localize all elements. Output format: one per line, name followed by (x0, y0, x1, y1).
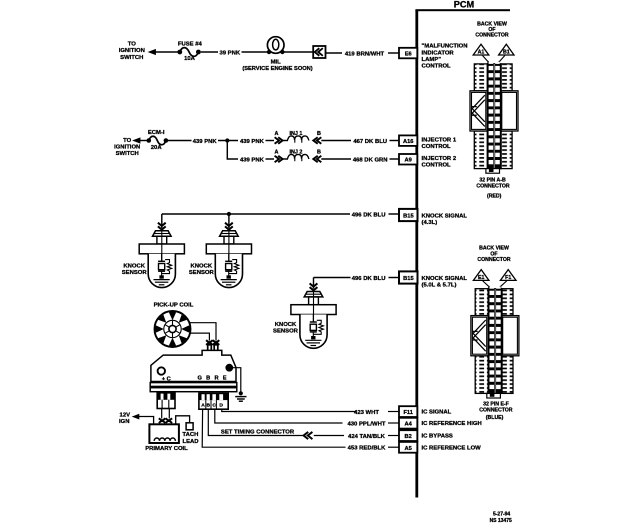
PCM top horizontal line (415, 9, 510, 11)
svg-text:CONTROL: CONTROL (422, 163, 452, 169)
wire (282, 51, 313, 53)
svg-text:SENSOR: SENSOR (122, 270, 148, 276)
connector C1 (A-B) body top hatched section (474, 64, 512, 91)
svg-text:A1: A1 (478, 49, 485, 55)
svg-text:468 DK GRN: 468 DK GRN (353, 157, 388, 163)
connector C1 (A-B) middle wide section (470, 91, 518, 131)
PCM pin A9 (399, 154, 417, 165)
wire (321, 140, 351, 142)
PCM pin B15 (4.3L knock) (399, 209, 418, 221)
svg-text:+ C: + C (162, 376, 171, 382)
svg-text:ECM-I: ECM-I (148, 130, 165, 136)
svg-text:SENSOR: SENSOR (189, 270, 215, 276)
module base plate bar 2 (150, 388, 237, 392)
wire triangle A1 to connector (483, 56, 489, 63)
svg-text:KNOCK: KNOCK (275, 322, 297, 328)
svg-text:SWITCH: SWITCH (120, 55, 143, 61)
connector C2 (E-F) pin square holes (490, 291, 501, 389)
module base plate bar 1 (150, 383, 237, 387)
junction node above knock sensor 2 (227, 212, 231, 216)
knock sensor 3 (291, 278, 336, 349)
wire (218, 140, 238, 142)
svg-text:12V: 12V (120, 412, 131, 418)
wire triangle F1 to connector (500, 281, 507, 287)
svg-text:A16: A16 (403, 139, 413, 145)
wire (266, 158, 275, 160)
svg-text:D: D (219, 402, 223, 408)
ground symbol (module) (239, 391, 243, 395)
wire (389, 277, 400, 279)
arrow to 12V ignition (132, 414, 140, 420)
svg-text:KNOCK: KNOCK (123, 263, 145, 269)
svg-text:MIL: MIL (271, 60, 282, 66)
knock sensor flange (291, 305, 336, 315)
tach lead wire (176, 416, 190, 425)
arrow to ignition switch (132, 137, 140, 143)
svg-text:A4: A4 (405, 422, 413, 428)
svg-text:B1: B1 (503, 49, 510, 55)
connector C1 (A-B) top wire entry marks (489, 62, 494, 64)
wire: knock sensors (4.3L) to B15 (162, 213, 350, 215)
pick-up coil (155, 311, 191, 347)
wire module pin C to PCM A4 (215, 409, 343, 423)
knock sensor stem center wire (161, 231, 163, 262)
knock sensor internal resistor (162, 260, 172, 274)
wire (242, 51, 269, 53)
svg-text:PICK-UP COIL: PICK-UP COIL (154, 303, 194, 309)
primary coil box (149, 424, 179, 443)
knock sensor stem (224, 236, 234, 244)
svg-text:TO: TO (128, 42, 136, 48)
knock sensor cup body (148, 254, 175, 288)
svg-text:20A: 20A (151, 145, 163, 151)
svg-text:B15: B15 (403, 276, 413, 282)
svg-text:B2: B2 (405, 434, 412, 440)
wire (390, 140, 400, 142)
module right pin housing (A B C D) (199, 393, 228, 409)
knock sensor flange (206, 244, 251, 254)
svg-text:NS 13475: NS 13475 (490, 518, 512, 524)
svg-text:CONTROL: CONTROL (422, 64, 452, 70)
connector C2 (E-F) body top hatched section (475, 289, 513, 316)
svg-text:(5.0L & 5.7L): (5.0L & 5.7L) (422, 282, 457, 288)
knock sensor flange (139, 244, 184, 254)
svg-text:5-27-94: 5-27-94 (493, 512, 510, 518)
knock sensor cap (220, 231, 239, 236)
connector pin id triangle E1 (C2) (473, 270, 489, 281)
knock sensor internal ground (311, 336, 315, 339)
knock sensor terminal arrows (310, 283, 318, 290)
wire module pin B to PCM B2 (208, 409, 303, 435)
module mounting hole (158, 367, 165, 374)
knock sensor cap (153, 231, 172, 236)
module ground terminal dot (225, 364, 233, 372)
svg-text:(BLUE): (BLUE) (486, 415, 504, 421)
svg-text:IC REFERENCE LOW: IC REFERENCE LOW (422, 445, 482, 451)
wire (266, 140, 275, 142)
connector pin id triangle A1 (C1) (473, 44, 489, 55)
svg-text:IC SIGNAL: IC SIGNAL (422, 410, 452, 416)
svg-text:FUSE #4: FUSE #4 (178, 41, 203, 47)
svg-text:IC BYPASS: IC BYPASS (422, 434, 453, 440)
svg-text:(RED): (RED) (487, 194, 502, 200)
svg-text:SWITCH: SWITCH (116, 151, 139, 157)
svg-text:A: A (201, 402, 205, 408)
svg-text:439 PNK: 439 PNK (193, 139, 218, 145)
svg-text:B: B (317, 150, 321, 156)
svg-text:430 PPL/WHT: 430 PPL/WHT (348, 421, 386, 427)
module ground wire (233, 368, 241, 392)
svg-text:439 PNK: 439 PNK (240, 139, 265, 145)
knock sensor cup body (300, 315, 327, 349)
PCM pin A16 (399, 135, 417, 146)
wire: knock sensor (5.0L/5.7L) to B15 (314, 277, 351, 279)
svg-text:453 RED/BLK: 453 RED/BLK (348, 446, 386, 452)
connector C1 (A-B) center pin strip (487, 63, 502, 169)
ignition module body (151, 350, 236, 381)
module left pin housing (157, 393, 175, 409)
connector C2 (E-F) top wire entry marks (490, 287, 495, 289)
connector C2 (E-F) bottom tab (487, 393, 501, 398)
wire (321, 158, 351, 160)
svg-text:INDICATOR: INDICATOR (422, 50, 455, 56)
svg-text:KNOCK SIGNAL: KNOCK SIGNAL (422, 276, 468, 282)
wire (388, 422, 399, 424)
wire stubs inside left housing (161, 400, 163, 409)
svg-text:E6: E6 (405, 51, 412, 57)
svg-text:SET TIMING CONNECTOR: SET TIMING CONNECTOR (221, 430, 295, 436)
svg-text:439 PNK: 439 PNK (240, 157, 265, 163)
connector C1 (A-B) left wire-bundle box (472, 92, 486, 129)
knock sensor internal piezo element (161, 254, 163, 261)
svg-text:A9: A9 (405, 158, 412, 164)
wire branch down to injector 2 row (227, 141, 238, 160)
P pin (208, 345, 212, 351)
knock sensor stem (157, 236, 167, 244)
P terminal connector X (206, 340, 213, 345)
tach lead connector square (186, 423, 193, 430)
svg-text:496 DK BLU: 496 DK BLU (352, 276, 386, 282)
svg-text:KNOCK SIGNAL: KNOCK SIGNAL (422, 214, 468, 220)
connector pin id triangle F1 (C2) (500, 270, 516, 281)
svg-text:CONNECTOR: CONNECTOR (477, 257, 511, 263)
svg-text:419 BRN/WHT: 419 BRN/WHT (345, 51, 385, 57)
wire module pin to coil C terminal (168, 408, 170, 419)
wire 12V to coil (139, 417, 154, 425)
PCM pin E6 (399, 48, 417, 59)
wire (201, 51, 218, 53)
PCM pin B2 (399, 430, 417, 441)
svg-text:B15: B15 (403, 214, 413, 220)
set timing connector chevron (304, 432, 313, 439)
svg-text:SENSOR: SENSOR (273, 328, 299, 334)
svg-text:(SERVICE ENGINE SOON): (SERVICE ENGINE SOON) (242, 66, 312, 72)
PCM pin A5 (399, 442, 417, 453)
svg-text:TACH: TACH (182, 432, 198, 438)
svg-text:CONTROL: CONTROL (422, 144, 452, 150)
inline connector (boxed double chevron) (313, 46, 325, 58)
knock sensor internal ground (227, 275, 231, 278)
svg-text:C: C (212, 402, 216, 408)
svg-text:PRIMARY COIL: PRIMARY COIL (145, 446, 188, 452)
connector C2 (E-F) left wire-bundle box (472, 317, 486, 354)
junction node (225, 138, 229, 142)
knock sensor internal piezo element (228, 254, 230, 261)
wire (388, 446, 399, 448)
svg-text:496 DK BLU: 496 DK BLU (352, 212, 386, 218)
lamp MIL (Service Engine Soon) (267, 37, 284, 54)
wire module pin A to PCM A5 (202, 409, 345, 447)
svg-text:32 PIN E-F: 32 PIN E-F (483, 401, 509, 407)
svg-text:IGN: IGN (119, 419, 129, 425)
wire pick-up coil to N terminal (189, 323, 216, 341)
wire (389, 213, 400, 215)
svg-text:INJECTOR 1: INJECTOR 1 (422, 137, 457, 143)
svg-text:423 WHT: 423 WHT (354, 410, 379, 416)
svg-text:32 PIN A-B: 32 PIN A-B (479, 177, 506, 183)
coil terminal connector X 2 (166, 418, 173, 423)
primary coil winding (154, 438, 175, 441)
wire triangle E1 to connector (483, 281, 490, 287)
svg-text:CONNECTOR: CONNECTOR (476, 184, 510, 190)
connector C1 (A-B) bottom tab (486, 169, 500, 174)
knock sensor internal ground (159, 275, 163, 278)
knock sensor internal resistor (229, 260, 239, 274)
svg-text:INJECTOR 2: INJECTOR 2 (422, 156, 457, 162)
svg-text:E1: E1 (478, 275, 484, 281)
connector C2 (E-F) right cover box (503, 317, 518, 354)
svg-text:(4.3L): (4.3L) (422, 220, 438, 226)
svg-text:TO: TO (123, 138, 131, 144)
PCM boundary vertical line (415, 10, 418, 498)
wire (388, 411, 399, 413)
connector C1 (A-B) body bottom hatched section (474, 131, 512, 169)
connector C1 (A-B) right cover box (502, 92, 517, 129)
coil terminal connector X 1 (159, 418, 166, 423)
svg-text:424 TAN/BLK: 424 TAN/BLK (348, 434, 386, 440)
svg-text:F1: F1 (505, 275, 511, 281)
connector C2 (E-F) center pin strip (488, 288, 503, 394)
knock sensor stem (309, 297, 319, 305)
svg-text:PCM: PCM (454, 0, 475, 10)
wire (326, 52, 343, 54)
svg-text:LAMP": LAMP" (422, 57, 442, 63)
wire module pin to coil + terminal (161, 408, 163, 419)
svg-text:IC REFERENCE HIGH: IC REFERENCE HIGH (422, 421, 482, 427)
knock sensor stem center wire (313, 291, 315, 322)
svg-text:B: B (207, 402, 211, 408)
svg-text:A5: A5 (405, 446, 412, 452)
wire pick-up coil to P terminal (191, 333, 210, 341)
PCM pin A4 (399, 418, 417, 429)
connector C2 (E-F) middle wide section (471, 316, 519, 356)
arrow to ignition switch (148, 49, 156, 55)
PCM pin F11 (399, 406, 417, 417)
knock sensor cup body (215, 254, 242, 288)
svg-text:IGNITION: IGNITION (114, 145, 140, 151)
svg-text:IGNITION: IGNITION (119, 48, 145, 54)
svg-text:A: A (274, 131, 278, 137)
svg-text:F11: F11 (403, 410, 413, 416)
connector C1 (A-B) pin square holes (489, 66, 500, 164)
connector pin id triangle B1 (C1) (499, 44, 514, 55)
wire (390, 158, 400, 160)
wire label 496 DK BLU (351, 211, 388, 219)
wire (140, 140, 148, 142)
knock sensor internal resistor (314, 320, 324, 334)
knock sensor terminal arrows (158, 223, 166, 230)
wire (388, 435, 399, 437)
svg-text:"MALFUNCTION: "MALFUNCTION (422, 44, 468, 50)
wire (388, 52, 399, 54)
knock sensor terminal arrows (225, 223, 233, 230)
knock sensor stem center wire (228, 231, 230, 262)
svg-text:CONNECTOR: CONNECTOR (475, 33, 509, 39)
svg-text:G B R E: G B R E (198, 375, 228, 381)
svg-text:A: A (274, 150, 278, 156)
svg-text:39 PNK: 39 PNK (219, 50, 240, 56)
svg-text:10A: 10A (184, 56, 196, 62)
N terminal connector X (213, 340, 220, 345)
knock sensor internal piezo element (312, 315, 314, 323)
N pin (214, 345, 218, 351)
svg-text:LEAD: LEAD (182, 439, 198, 445)
wire (155, 51, 178, 53)
wire (168, 140, 192, 142)
svg-text:B: B (317, 131, 321, 137)
svg-text:CONNECTOR: CONNECTOR (479, 408, 513, 414)
PCM pin B15 (5.0L/5.7L knock) (399, 271, 418, 283)
wire module pin D to PCM F11 (222, 409, 356, 411)
connector C2 (E-F) body bottom hatched section (475, 356, 513, 394)
svg-text:KNOCK: KNOCK (190, 263, 212, 269)
knock sensor cap (304, 292, 323, 297)
wire triangle B1 to connector (499, 56, 505, 63)
svg-text:467 DK BLU: 467 DK BLU (353, 139, 387, 145)
